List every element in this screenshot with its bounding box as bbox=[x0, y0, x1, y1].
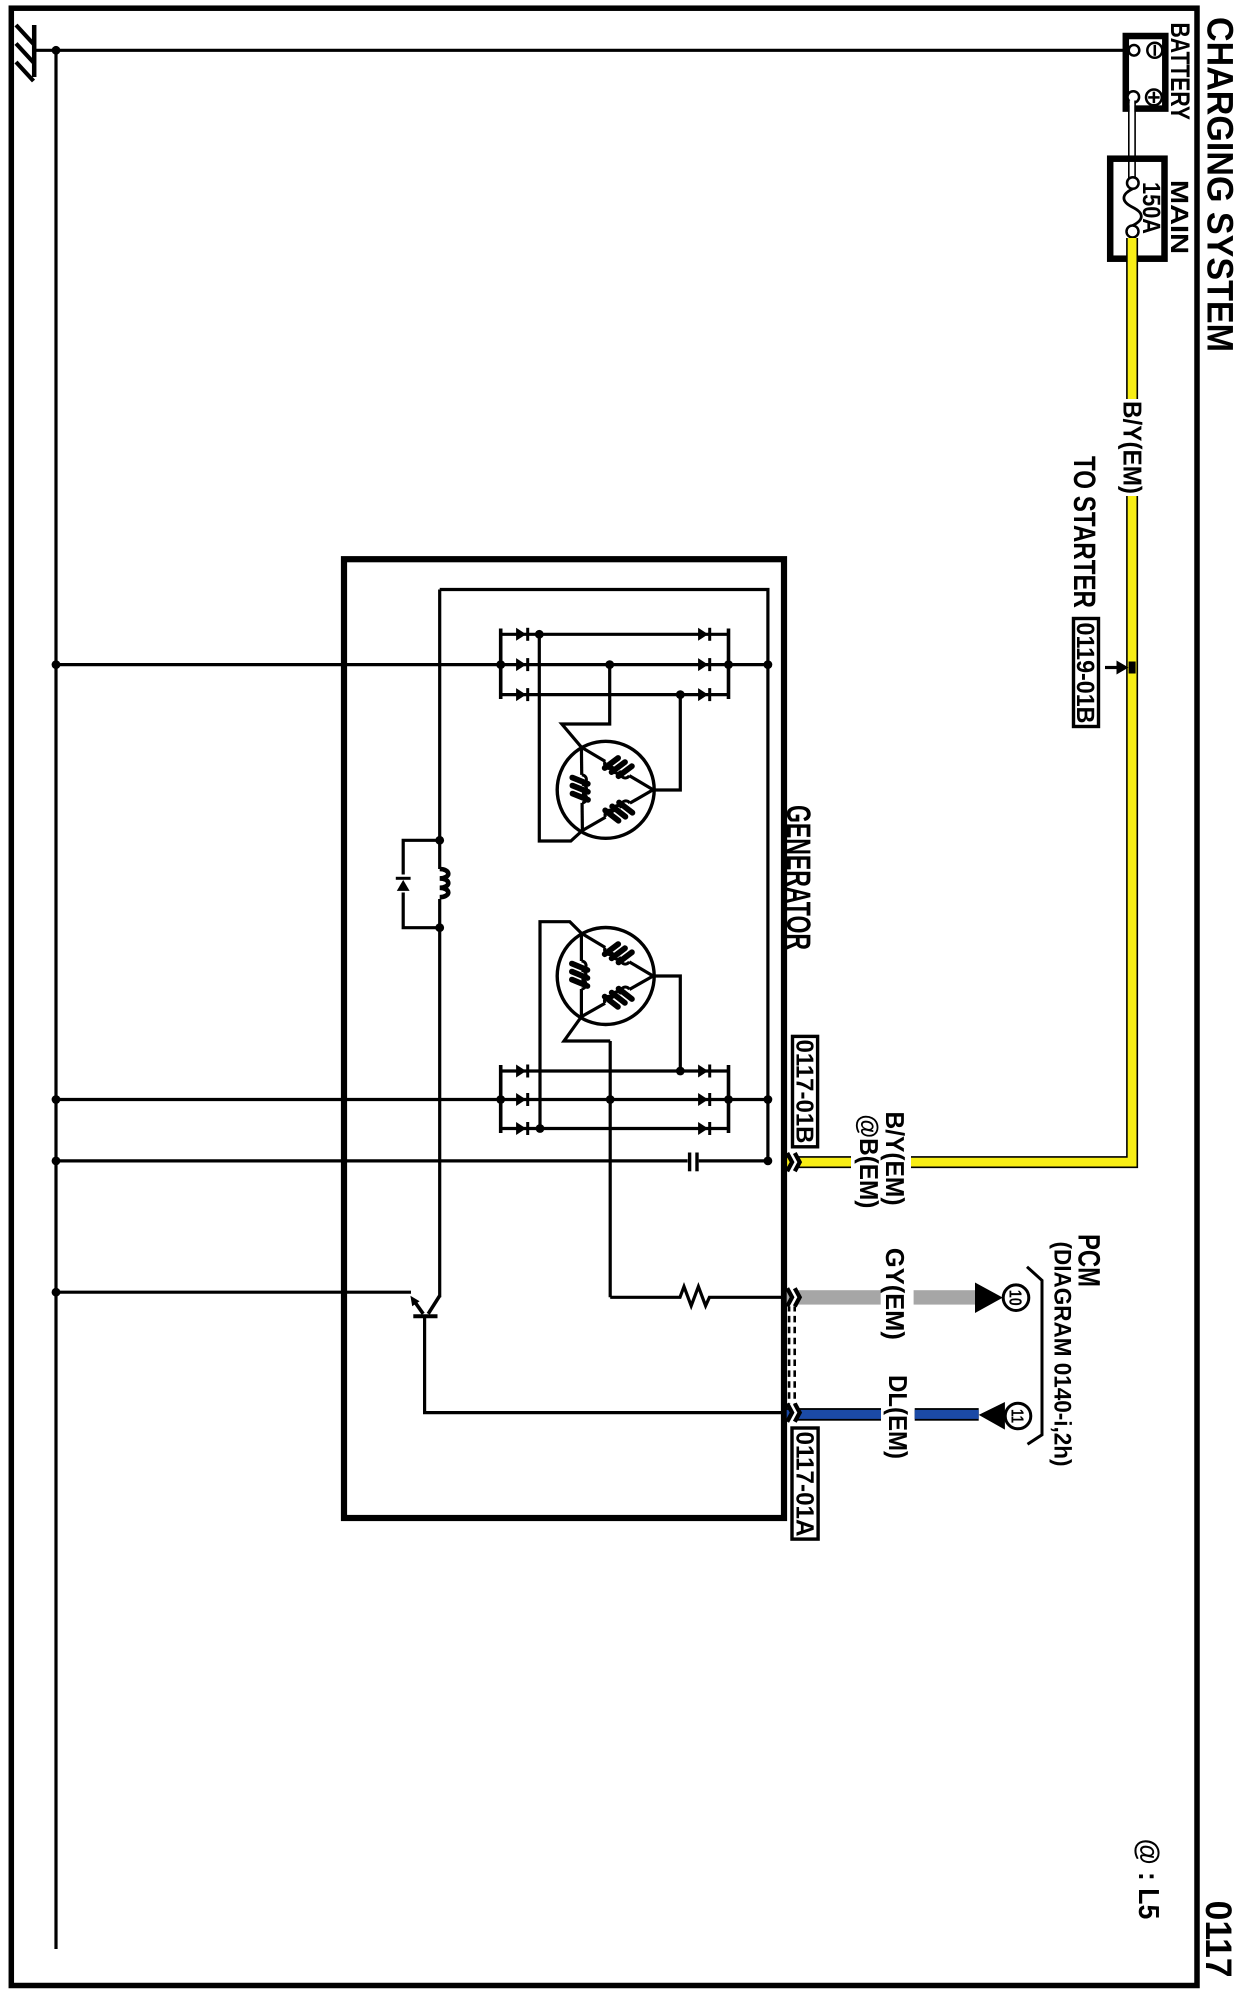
svg-text:CHARGING SYSTEM: CHARGING SYSTEM bbox=[1200, 17, 1238, 352]
svg-text:11: 11 bbox=[1007, 1409, 1027, 1423]
svg-text:0117-01A: 0117-01A bbox=[790, 1432, 818, 1537]
svg-text:DL(EM): DL(EM) bbox=[883, 1375, 913, 1459]
svg-text:10: 10 bbox=[1005, 1290, 1025, 1306]
svg-text:PCM: PCM bbox=[1072, 1234, 1107, 1287]
svg-text:0117-01B: 0117-01B bbox=[791, 1040, 818, 1144]
svg-text:0117: 0117 bbox=[1198, 1901, 1238, 1978]
svg-text:0119-01B: 0119-01B bbox=[1071, 623, 1099, 724]
svg-text:(DIAGRAM 0140-i,2h): (DIAGRAM 0140-i,2h) bbox=[1049, 1242, 1076, 1467]
svg-text:TO STARTER: TO STARTER bbox=[1067, 456, 1102, 608]
svg-text:GY(EM): GY(EM) bbox=[880, 1248, 910, 1340]
svg-text:@ : L5: @ : L5 bbox=[1132, 1839, 1164, 1920]
svg-text:GENERATOR: GENERATOR bbox=[779, 805, 817, 950]
svg-text:@B(EM): @B(EM) bbox=[854, 1114, 884, 1208]
svg-text:MAIN: MAIN bbox=[1165, 180, 1193, 254]
svg-text:150A: 150A bbox=[1137, 182, 1165, 234]
svg-text:B/Y(EM): B/Y(EM) bbox=[1118, 401, 1148, 494]
svg-text:BATTERY: BATTERY bbox=[1165, 23, 1195, 121]
